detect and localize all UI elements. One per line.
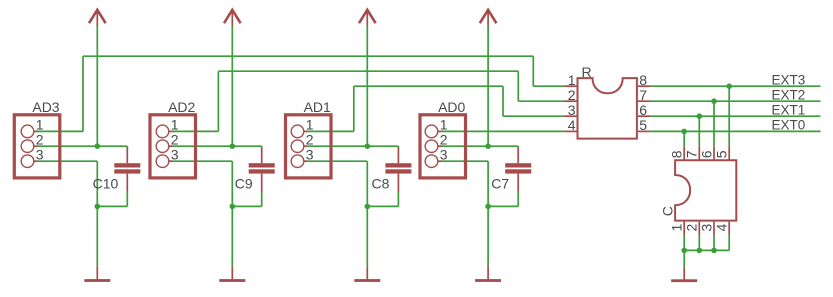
svg-text:R: R bbox=[582, 64, 592, 80]
svg-text:3: 3 bbox=[306, 147, 314, 163]
svg-text:AD3: AD3 bbox=[32, 99, 59, 115]
svg-text:1: 1 bbox=[171, 117, 179, 133]
svg-text:EXT3: EXT3 bbox=[772, 73, 806, 88]
svg-text:3: 3 bbox=[568, 102, 576, 118]
svg-text:1: 1 bbox=[669, 224, 685, 232]
svg-text:EXT2: EXT2 bbox=[772, 88, 806, 103]
svg-text:EXT0: EXT0 bbox=[772, 118, 806, 133]
svg-text:2: 2 bbox=[36, 132, 44, 148]
svg-text:C: C bbox=[660, 206, 676, 216]
svg-text:C9: C9 bbox=[235, 176, 253, 192]
svg-text:1: 1 bbox=[306, 117, 314, 133]
svg-text:C7: C7 bbox=[491, 176, 509, 192]
svg-text:4: 4 bbox=[568, 117, 576, 133]
svg-text:4: 4 bbox=[714, 224, 730, 232]
svg-text:C10: C10 bbox=[93, 176, 119, 192]
svg-text:6: 6 bbox=[639, 102, 647, 118]
svg-text:6: 6 bbox=[698, 150, 714, 158]
svg-text:2: 2 bbox=[171, 132, 179, 148]
svg-text:AD1: AD1 bbox=[304, 99, 331, 115]
svg-text:2: 2 bbox=[568, 87, 576, 103]
svg-text:AD2: AD2 bbox=[168, 99, 195, 115]
svg-text:3: 3 bbox=[171, 147, 179, 163]
svg-text:8: 8 bbox=[639, 72, 647, 88]
svg-text:3: 3 bbox=[698, 224, 714, 232]
svg-text:7: 7 bbox=[639, 87, 647, 103]
svg-text:AD0: AD0 bbox=[438, 99, 465, 115]
svg-text:C8: C8 bbox=[371, 176, 389, 192]
svg-text:EXT1: EXT1 bbox=[772, 103, 806, 118]
svg-text:2: 2 bbox=[306, 132, 314, 148]
svg-text:7: 7 bbox=[684, 150, 700, 158]
svg-text:3: 3 bbox=[36, 147, 44, 163]
svg-text:5: 5 bbox=[714, 150, 730, 158]
svg-text:3: 3 bbox=[440, 147, 448, 163]
svg-text:2: 2 bbox=[684, 224, 700, 232]
svg-text:1: 1 bbox=[440, 117, 448, 133]
svg-text:1: 1 bbox=[36, 117, 44, 133]
svg-text:2: 2 bbox=[440, 132, 448, 148]
svg-text:1: 1 bbox=[568, 72, 576, 88]
svg-text:8: 8 bbox=[669, 150, 685, 158]
svg-text:5: 5 bbox=[639, 117, 647, 133]
